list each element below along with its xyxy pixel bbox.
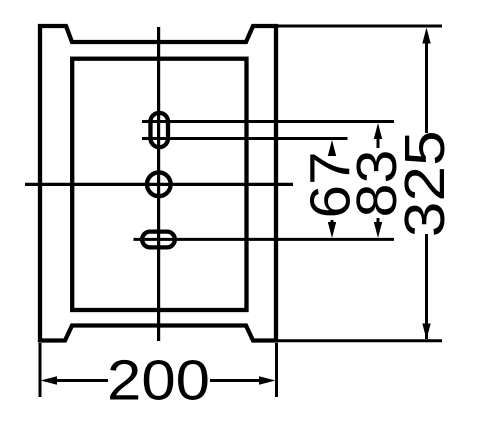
- svg-text:200: 200: [107, 349, 210, 413]
- svg-text:325: 325: [393, 130, 457, 237]
